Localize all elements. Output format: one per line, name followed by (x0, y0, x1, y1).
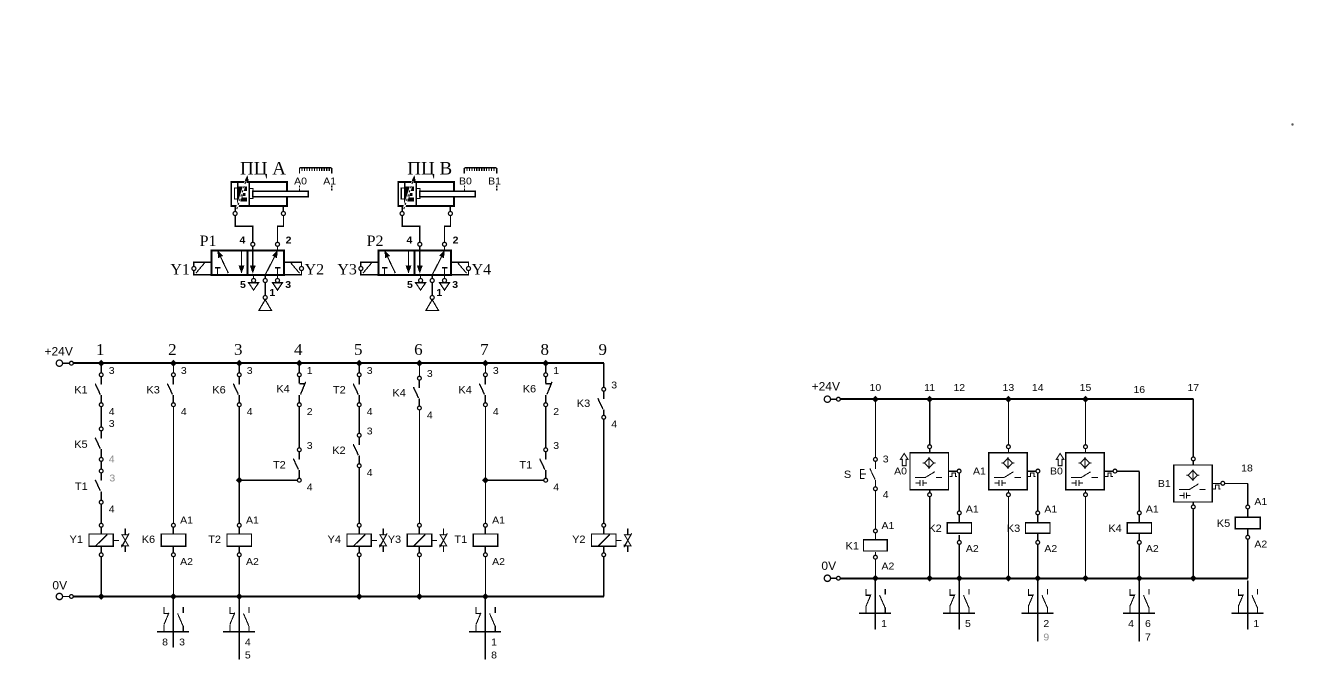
label T1 (75, 481, 88, 493)
terminal labels of K4 (493, 365, 499, 418)
wire rung 6 (416, 360, 423, 600)
terminal labels of K4 (427, 368, 433, 421)
svg-text:1: 1 (307, 365, 313, 377)
terminal labels of K3 (611, 379, 617, 430)
svg-text:3: 3 (883, 454, 889, 466)
contact K6 (NO) (233, 373, 241, 407)
svg-text:3: 3 (367, 425, 373, 437)
terminal labels of K4 (307, 365, 313, 418)
terminal labels of K5 (109, 418, 116, 484)
wire cylinder to port 4 of P1 (233, 206, 255, 250)
svg-text:3: 3 (179, 636, 185, 648)
rung number 5 (354, 340, 363, 359)
svg-text:K3: K3 (1007, 523, 1020, 535)
svg-text:Y3: Y3 (388, 534, 401, 546)
terminal labels of S (883, 454, 889, 501)
relay coil T1 (473, 523, 497, 556)
svg-text:A1: A1 (973, 466, 986, 478)
svg-text:B1: B1 (1158, 478, 1171, 490)
wire rung 2 (170, 360, 177, 600)
label coil K1 (846, 540, 859, 552)
wire cylinder to port 4 of P2 (400, 206, 422, 250)
proximity sensor A1 (989, 445, 1040, 497)
svg-text:A2: A2 (1044, 543, 1057, 555)
terminal labels of T2 (307, 440, 313, 494)
exhaust port 5 of P2 (416, 275, 426, 290)
label +24V (left) (45, 344, 73, 358)
label Y3 (337, 261, 357, 278)
svg-text:10: 10 (870, 382, 882, 394)
svg-text:K4: K4 (1108, 523, 1121, 535)
rung number 2 (168, 340, 177, 359)
svg-text:Y4: Y4 (472, 261, 492, 278)
rung number 12 (953, 382, 965, 394)
svg-text:T2: T2 (333, 384, 346, 396)
label cylinder B (407, 159, 452, 180)
label coil Y2 (572, 534, 585, 546)
valve P2 left position flow paths (382, 251, 411, 275)
solenoid coil Y3 (407, 523, 431, 556)
contact T2 (NO) (293, 448, 301, 482)
label K2 (332, 445, 345, 457)
terminal labels A1/A2 of K4 (1146, 503, 1159, 555)
port 5 label of P1 (240, 279, 246, 291)
svg-text:P2: P2 (367, 233, 384, 250)
cross-reference rung numbers of K5 (1253, 618, 1259, 630)
svg-text:4: 4 (109, 406, 115, 418)
svg-text:K1: K1 (74, 384, 87, 396)
relay coil K5 (1235, 505, 1260, 539)
proximity sensor B0 (1066, 445, 1117, 497)
wire rung 3 (236, 360, 243, 600)
svg-text:6: 6 (1145, 618, 1151, 630)
svg-text:K5: K5 (74, 439, 87, 451)
rung number 6 (414, 340, 423, 359)
label coil K4 (1108, 523, 1121, 535)
svg-text:4: 4 (367, 406, 373, 418)
svg-text:18: 18 (1241, 462, 1253, 474)
svg-text:K6: K6 (142, 534, 155, 546)
svg-text:4: 4 (247, 406, 253, 418)
valve solenoid indicator of Y1 (113, 528, 129, 552)
svg-text:2: 2 (307, 406, 313, 418)
svg-text:12: 12 (953, 382, 965, 394)
relay coil K3 (1026, 511, 1050, 544)
label coil K5 (1217, 518, 1230, 530)
label P1 (200, 233, 217, 250)
terminal labels of T1 (553, 440, 559, 494)
svg-text:3: 3 (307, 440, 313, 452)
cross-reference rung numbers of K4 (1128, 618, 1151, 643)
contact K4 (NO) (479, 373, 487, 407)
contact usage cross-reference of K3 (1022, 580, 1054, 641)
svg-text:3: 3 (493, 365, 499, 377)
svg-text:5: 5 (240, 279, 246, 291)
wire rung 7 (482, 360, 489, 600)
+24V supply rail (right ladder) (824, 396, 1193, 402)
svg-text:1: 1 (1253, 618, 1259, 630)
svg-text:4: 4 (307, 482, 313, 494)
svg-text:1: 1 (436, 287, 442, 299)
stray mark (1291, 123, 1293, 125)
contact T1 (NO) (540, 448, 548, 482)
valve solenoid indicator of Y2 (616, 528, 632, 552)
svg-text:3: 3 (427, 368, 433, 380)
svg-text:S: S (844, 469, 851, 481)
svg-text:5: 5 (354, 340, 363, 359)
rung number 1 (96, 340, 105, 359)
label Y2 (305, 261, 325, 278)
label B0 (1050, 466, 1063, 478)
svg-text:3: 3 (234, 340, 243, 359)
svg-text:7: 7 (480, 340, 489, 359)
relay coil T2 (227, 523, 251, 556)
label B1 (1158, 478, 1171, 490)
solenoid Y4 (451, 262, 471, 275)
wire rung 1 (98, 360, 105, 600)
terminal labels of K1 (109, 365, 115, 418)
svg-text:K3: K3 (146, 384, 159, 396)
svg-text:4: 4 (109, 454, 115, 466)
terminal labels of T2 (367, 365, 373, 418)
cross-reference rung numbers of K2 (965, 618, 971, 630)
svg-text:2: 2 (1043, 618, 1049, 630)
svg-text:A1: A1 (1044, 503, 1057, 515)
proximity sensor A0 (910, 445, 961, 497)
wire rung 8 (485, 360, 549, 480)
contact usage cross-reference of T2 (223, 599, 255, 660)
piston position arrow A (235, 176, 248, 213)
terminal labels A1/A2 of K5 (1254, 496, 1267, 550)
wire rung 10 (872, 396, 879, 582)
svg-text:A0: A0 (894, 466, 907, 478)
label coil Y1 (70, 534, 83, 546)
label K4 (458, 384, 471, 396)
terminal labels A1/A2 of K1 (882, 520, 895, 573)
svg-text:A2: A2 (966, 543, 979, 555)
rung number 15 (1080, 382, 1092, 394)
svg-text:7: 7 (1145, 631, 1151, 643)
svg-text:0V: 0V (52, 578, 67, 592)
terminal labels A1/A2 of T2 (246, 514, 259, 568)
svg-text:K1: K1 (846, 540, 859, 552)
label K3 (146, 384, 159, 396)
wire cylinder to port 2 of P1 (276, 206, 286, 250)
svg-text:P1: P1 (200, 233, 217, 250)
svg-text:Y1: Y1 (70, 534, 83, 546)
valve P2 right position flow paths (418, 251, 448, 275)
contact T1 (NO) (95, 469, 103, 504)
position scale A0-A1 (300, 168, 332, 174)
svg-text:5: 5 (965, 618, 971, 630)
solenoid coil Y4 (347, 523, 371, 556)
label K1 (74, 384, 87, 396)
svg-text:A1: A1 (882, 520, 895, 532)
svg-text:K4: K4 (392, 388, 405, 400)
contact K4 (NC) (297, 373, 305, 407)
label K6 (212, 384, 225, 396)
svg-text:K4: K4 (276, 383, 289, 395)
terminal labels A1/A2 of K3 (1044, 503, 1057, 555)
rung number 4 (294, 340, 303, 359)
svg-text:17: 17 (1187, 382, 1199, 394)
valve solenoid indicator of Y3 (432, 528, 448, 552)
svg-text:A2: A2 (180, 556, 193, 568)
svg-text:A1: A1 (180, 514, 193, 526)
port 3 label of P1 (285, 279, 291, 291)
port 2 label of P2 (453, 234, 459, 246)
+24V supply rail (left ladder) (56, 360, 604, 366)
wire rung 18 (1225, 483, 1248, 578)
svg-text:3: 3 (109, 418, 115, 430)
svg-text:K6: K6 (523, 383, 536, 395)
port 4 label of P2 (407, 234, 413, 246)
0V return rail (right ladder) (824, 575, 1248, 581)
rung number 18 (1241, 462, 1253, 474)
terminal labels of K3 (181, 365, 187, 418)
pneumatic cylinder A (231, 182, 308, 206)
rung number 16 (1133, 384, 1145, 396)
svg-text:0V: 0V (821, 559, 836, 573)
wire rung 16 (1117, 471, 1143, 581)
rung number 3 (234, 340, 243, 359)
svg-text:A2: A2 (882, 561, 895, 573)
label A0 (894, 466, 907, 478)
svg-text:K2: K2 (928, 523, 941, 535)
cross-reference rung numbers of K6 (162, 636, 185, 648)
terminal labels of T1 (109, 504, 115, 516)
contact usage cross-reference of T1 (469, 599, 501, 660)
position scale B0-B1 (464, 168, 496, 174)
sensor mark B0 (459, 176, 472, 191)
svg-text:K2: K2 (332, 445, 345, 457)
pushbutton S (NO) (860, 458, 877, 491)
svg-text:Y2: Y2 (305, 261, 325, 278)
piston position arrow B (402, 176, 415, 213)
svg-text:6: 6 (414, 340, 423, 359)
label S (844, 469, 851, 481)
svg-text:+24V: +24V (45, 344, 73, 358)
supply port 1 of P1 (259, 275, 272, 311)
contact K1 (NO) (95, 373, 103, 407)
relay coil K2 (947, 511, 971, 544)
svg-text:B0: B0 (459, 176, 472, 188)
svg-text:3: 3 (611, 379, 617, 391)
svg-text:Y1: Y1 (170, 261, 190, 278)
solenoid coil Y2 (592, 523, 616, 556)
svg-text:T2: T2 (273, 460, 286, 472)
contact K3 (NO) (167, 373, 175, 407)
contact K5 (NO) (95, 427, 103, 461)
label coil Y3 (388, 534, 401, 546)
label 0V (left) (52, 578, 67, 592)
svg-text:4: 4 (367, 467, 373, 479)
svg-text:4: 4 (245, 636, 251, 648)
valve P1 left position flow paths (215, 251, 244, 275)
svg-text:8: 8 (540, 340, 549, 359)
svg-text:3: 3 (367, 365, 373, 377)
wire rung 17 (1190, 399, 1197, 581)
svg-text:1: 1 (96, 340, 105, 359)
svg-text:2: 2 (453, 234, 459, 246)
port 5 label of P2 (407, 279, 413, 291)
rung number 13 (1003, 382, 1015, 394)
extend-direction arrow of B0 (1056, 454, 1064, 466)
label P2 (367, 233, 384, 250)
valve P1 right position flow paths (251, 251, 280, 275)
terminal labels of K6 (247, 365, 253, 418)
svg-text:3: 3 (553, 440, 559, 452)
contact usage cross-reference of K4 (1123, 580, 1155, 641)
svg-text:3: 3 (452, 279, 458, 291)
svg-text:3: 3 (109, 472, 115, 484)
svg-text:2: 2 (286, 234, 292, 246)
label Y4 (472, 261, 492, 278)
svg-text:K6: K6 (212, 384, 225, 396)
sensor mark A1 (323, 176, 336, 191)
exhaust port 5 of P1 (249, 275, 259, 290)
wire rung 15 (1082, 396, 1089, 582)
solenoid coil Y1 (89, 523, 113, 556)
rung number 11 (924, 382, 935, 394)
contact usage cross-reference of K5 (1232, 580, 1264, 629)
contact T2 (NO) (353, 373, 361, 407)
contact K2 (NO) (353, 433, 361, 467)
svg-text:T1: T1 (454, 534, 467, 546)
svg-text:A0: A0 (294, 176, 307, 188)
svg-text:11: 11 (924, 382, 935, 394)
valve P2 body (378, 251, 451, 275)
svg-text:3: 3 (285, 279, 291, 291)
label K4 (276, 383, 289, 395)
svg-text:4: 4 (240, 234, 246, 246)
label coil K6 (142, 534, 155, 546)
contact K6 (NC) (544, 373, 552, 407)
svg-text:3: 3 (109, 365, 115, 377)
wire rung 12 (956, 473, 963, 582)
cross-reference rung numbers of K3 (1043, 618, 1049, 643)
wire rung 5 (356, 360, 363, 600)
0V return rail (left ladder) (56, 593, 604, 599)
cross-reference rung numbers of K1 (881, 618, 887, 630)
solenoid Y1 (192, 262, 212, 275)
svg-text:K3: K3 (577, 398, 590, 410)
proximity sensor B1 (1174, 457, 1225, 509)
contact K4 (NO) (413, 376, 421, 410)
label T2 (333, 384, 346, 396)
cross-reference rung numbers of T1 (491, 636, 497, 661)
label coil K2 (928, 523, 941, 535)
svg-text:A1: A1 (492, 514, 505, 526)
exhaust port 3 of P2 (440, 275, 450, 290)
wire rung 14 (1034, 473, 1041, 582)
svg-text:1: 1 (553, 365, 559, 377)
label T2 (273, 460, 286, 472)
svg-text:4: 4 (407, 234, 413, 246)
relay coil K1 (864, 529, 888, 559)
svg-text:8: 8 (491, 650, 497, 662)
label K4 (392, 388, 405, 400)
sensor mark B1 (488, 176, 501, 191)
svg-text:+24V: +24V (812, 380, 840, 394)
valve solenoid indicator of Y4 (371, 528, 387, 552)
svg-text:A1: A1 (966, 503, 979, 515)
svg-text:4: 4 (611, 419, 617, 431)
svg-text:B1: B1 (488, 176, 501, 188)
svg-text:1: 1 (881, 618, 887, 630)
contact usage cross-reference of K1 (859, 580, 891, 629)
wire rung 9 (603, 363, 605, 596)
svg-text:Y4: Y4 (328, 534, 341, 546)
svg-text:B0: B0 (1050, 466, 1063, 478)
svg-text:16: 16 (1133, 384, 1145, 396)
svg-text:15: 15 (1080, 382, 1092, 394)
svg-text:4: 4 (1128, 618, 1134, 630)
svg-text:3: 3 (247, 365, 253, 377)
label coil T1 (454, 534, 467, 546)
sensor mark A0 (294, 176, 307, 191)
port 1 label of P2 (436, 287, 442, 299)
rung number 7 (480, 340, 489, 359)
terminal labels of K2 (367, 425, 373, 479)
terminal labels A1/A2 of K6 (180, 514, 193, 568)
label coil Y4 (328, 534, 341, 546)
svg-text:A2: A2 (492, 556, 505, 568)
label K3 (577, 398, 590, 410)
svg-text:Y3: Y3 (337, 261, 357, 278)
relay coil K6 (161, 523, 185, 556)
svg-text:3: 3 (181, 365, 187, 377)
svg-text:A1: A1 (1254, 496, 1267, 508)
supply port 1 of P2 (426, 275, 439, 311)
exhaust port 3 of P1 (273, 275, 283, 290)
cross-reference rung numbers of T2 (245, 636, 251, 661)
svg-text:A2: A2 (246, 556, 259, 568)
valve P1 body (211, 251, 284, 275)
wire rung 11 (926, 396, 933, 582)
rung number 14 (1032, 382, 1044, 394)
svg-text:T2: T2 (208, 534, 221, 546)
terminal labels A1/A2 of K2 (966, 503, 979, 555)
svg-text:4: 4 (427, 409, 433, 421)
rung number 10 (870, 382, 882, 394)
port 3 label of P2 (452, 279, 458, 291)
svg-text:13: 13 (1003, 382, 1015, 394)
svg-text:A1: A1 (246, 514, 259, 526)
svg-text:4: 4 (181, 406, 187, 418)
svg-text:A2: A2 (1254, 538, 1267, 550)
terminal labels of K6 (553, 365, 559, 418)
svg-text:5: 5 (407, 279, 413, 291)
relay coil K4 (1127, 511, 1151, 544)
label coil K3 (1007, 523, 1020, 535)
contact usage cross-reference of K6 (157, 599, 189, 648)
svg-text:9: 9 (599, 340, 608, 359)
label T1 (519, 460, 532, 472)
svg-text:8: 8 (162, 636, 168, 648)
rung number 9 (599, 340, 608, 359)
label 0V (right) (821, 559, 836, 573)
extend-direction arrow of A0 (900, 454, 908, 466)
svg-text:4: 4 (493, 406, 499, 418)
svg-text:2: 2 (553, 406, 559, 418)
solenoid Y2 (284, 262, 304, 275)
svg-text:K4: K4 (458, 384, 471, 396)
svg-text:4: 4 (883, 489, 889, 501)
svg-text:Y2: Y2 (572, 534, 585, 546)
contact usage cross-reference of K2 (943, 580, 975, 629)
rung number 8 (540, 340, 549, 359)
